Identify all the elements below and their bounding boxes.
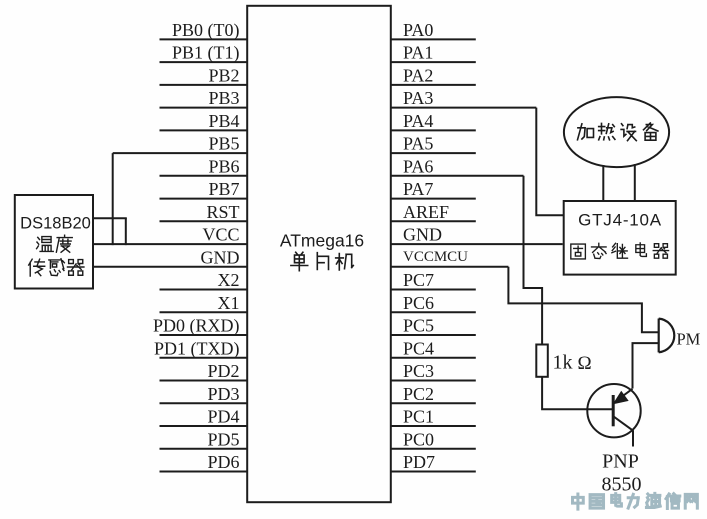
svg-text:GTJ4-10A: GTJ4-10A [578, 211, 662, 230]
svg-text:GND: GND [201, 247, 240, 267]
heater device ellipse 加热设备 [564, 97, 669, 167]
pin PD2 (left row 15) [160, 361, 248, 381]
wire resistor bottom to base of Q1 [542, 377, 612, 409]
pin PB7 (left row 7) [160, 179, 248, 199]
svg-text:GND: GND [403, 225, 442, 245]
svg-text:PA4: PA4 [403, 111, 433, 131]
pin PA0 (right row 0) [391, 20, 476, 40]
wire VCCMCU to PM (+) terminal [508, 267, 658, 332]
svg-text:PA7: PA7 [403, 179, 433, 199]
pin PD6 (left row 19) [160, 452, 248, 472]
svg-text:ATmega16: ATmega16 [280, 231, 364, 251]
pin PC0 (right row 18) [391, 429, 476, 449]
svg-text:PA0: PA0 [403, 20, 433, 40]
watermark 中国电力通信网 [573, 493, 698, 509]
svg-text:PB6: PB6 [208, 156, 239, 176]
pin PD4 (left row 17) [160, 407, 248, 427]
pin GND (right row 9) [391, 225, 563, 245]
wire heater to relay left lead [602, 165, 604, 201]
pin PC5 (right row 13) [391, 316, 476, 336]
pin PC3 (right row 15) [391, 361, 476, 381]
relay K1 GTJ4-10A box [564, 201, 676, 275]
svg-text:PD4: PD4 [207, 407, 239, 427]
svg-text:PC0: PC0 [403, 429, 434, 449]
pin PC4 (right row 14) [391, 338, 476, 358]
MCU label 单片机 [291, 252, 353, 270]
svg-text:VCCMCU: VCCMCU [403, 249, 468, 265]
svg-text:1k: 1k [553, 352, 573, 374]
wire PA6 to resistor top [524, 176, 543, 345]
svg-text:X2: X2 [218, 270, 240, 290]
svg-text:PA1: PA1 [403, 43, 433, 63]
pin PB5 (left row 5) [113, 134, 247, 154]
pin RST (left row 8) [160, 202, 248, 222]
svg-text:8550: 8550 [602, 474, 642, 496]
pin PA5 (right row 5) [391, 134, 476, 154]
svg-text:PD1 (TXD): PD1 (TXD) [154, 338, 240, 359]
svg-text:PC6: PC6 [403, 293, 434, 313]
svg-text:PD0 (RXD): PD0 (RXD) [153, 316, 240, 337]
resistor R1 1kΩ [536, 345, 591, 377]
svg-text:PM: PM [677, 330, 701, 349]
wire Q1 collector lead [632, 430, 634, 446]
pin PC7 (right row 11) [391, 270, 476, 290]
pin AREF (right row 8) [391, 202, 476, 222]
wire sensor DQ vertical drop [125, 218, 127, 245]
svg-text:Ω: Ω [578, 353, 592, 374]
relay label 固态继电器 [571, 243, 669, 259]
pin PA3 (right row 3) [391, 88, 536, 108]
pin PA2 (right row 2) [391, 66, 476, 86]
pin PA6 (right row 6) [391, 156, 524, 176]
svg-text:PB4: PB4 [208, 111, 239, 131]
svg-text:PB3: PB3 [208, 88, 239, 108]
sensor label 传感器 [29, 259, 84, 276]
MCU U1 ATmega16 box [247, 6, 391, 502]
pin PD3 (left row 16) [160, 384, 248, 404]
svg-text:PB0 (T0): PB0 (T0) [172, 20, 240, 41]
svg-text:X1: X1 [218, 293, 240, 313]
pin PA7 (right row 7) [391, 179, 476, 199]
svg-text:RST: RST [206, 202, 239, 222]
sensor label 温度 [37, 235, 73, 252]
wire PM (-) terminal to Q1 emitter [633, 343, 659, 388]
pin PD5 (left row 18) [160, 429, 248, 449]
svg-text:VCC: VCC [202, 225, 239, 245]
wire heater to relay right lead [634, 164, 636, 201]
svg-text:PB2: PB2 [208, 66, 239, 86]
svg-text:PA6: PA6 [403, 156, 433, 176]
pin PB4 (left row 4) [160, 111, 248, 131]
transistor Q1 PNP 8550 [587, 384, 640, 437]
svg-text:PC7: PC7 [403, 270, 434, 290]
svg-text:PD3: PD3 [207, 384, 239, 404]
pin X2 (left row 11) [160, 270, 248, 290]
pin VCCMCU (right row 10) [391, 249, 508, 267]
svg-text:PNP: PNP [602, 451, 639, 473]
pin PB6 (left row 6) [160, 156, 248, 176]
pin PD7 (right row 19) [391, 452, 476, 472]
pin VCC (left row 9) [93, 225, 247, 245]
svg-text:PD5: PD5 [207, 429, 239, 449]
svg-text:PC3: PC3 [403, 361, 434, 381]
pin PB3 (left row 3) [160, 88, 248, 108]
svg-text:PD7: PD7 [403, 452, 435, 472]
pin PB0 (left row 0) [160, 20, 248, 41]
wire PB5 vertical drop to VCC rail [112, 153, 114, 245]
buzzer PM symbol [659, 319, 701, 353]
svg-text:PA2: PA2 [403, 66, 433, 86]
sensor U2 DS18B20 box [15, 195, 93, 289]
pin PD0 (left row 13) [153, 316, 247, 337]
pin PC6 (right row 12) [391, 293, 476, 313]
svg-text:PB5: PB5 [208, 134, 239, 154]
pin PD1 (left row 14) [154, 338, 247, 359]
svg-text:PA3: PA3 [403, 88, 433, 108]
svg-text:PD2: PD2 [207, 361, 239, 381]
wire PA3 to relay (down + right) [536, 108, 563, 216]
svg-text:PC1: PC1 [403, 407, 434, 427]
pin GND (left row 10) [93, 247, 247, 267]
svg-text:PC5: PC5 [403, 316, 434, 336]
svg-text:PB7: PB7 [208, 179, 239, 199]
svg-text:PA5: PA5 [403, 134, 433, 154]
pin PB1 (left row 1) [160, 43, 248, 64]
pin PC1 (right row 17) [391, 407, 476, 427]
pin X1 (left row 12) [160, 293, 248, 313]
wire sensor DQ stub horizontal [93, 217, 126, 219]
svg-text:PC4: PC4 [403, 338, 434, 358]
pin PC2 (right row 16) [391, 384, 476, 404]
svg-text:AREF: AREF [403, 202, 449, 222]
pin PA1 (right row 1) [391, 43, 476, 63]
svg-text:PD6: PD6 [207, 452, 239, 472]
pin PA4 (right row 4) [391, 111, 476, 131]
svg-text:DS18B20: DS18B20 [20, 215, 91, 233]
svg-text:PC2: PC2 [403, 384, 434, 404]
pin PB2 (left row 2) [160, 66, 248, 86]
svg-text:PB1 (T1): PB1 (T1) [172, 43, 240, 64]
